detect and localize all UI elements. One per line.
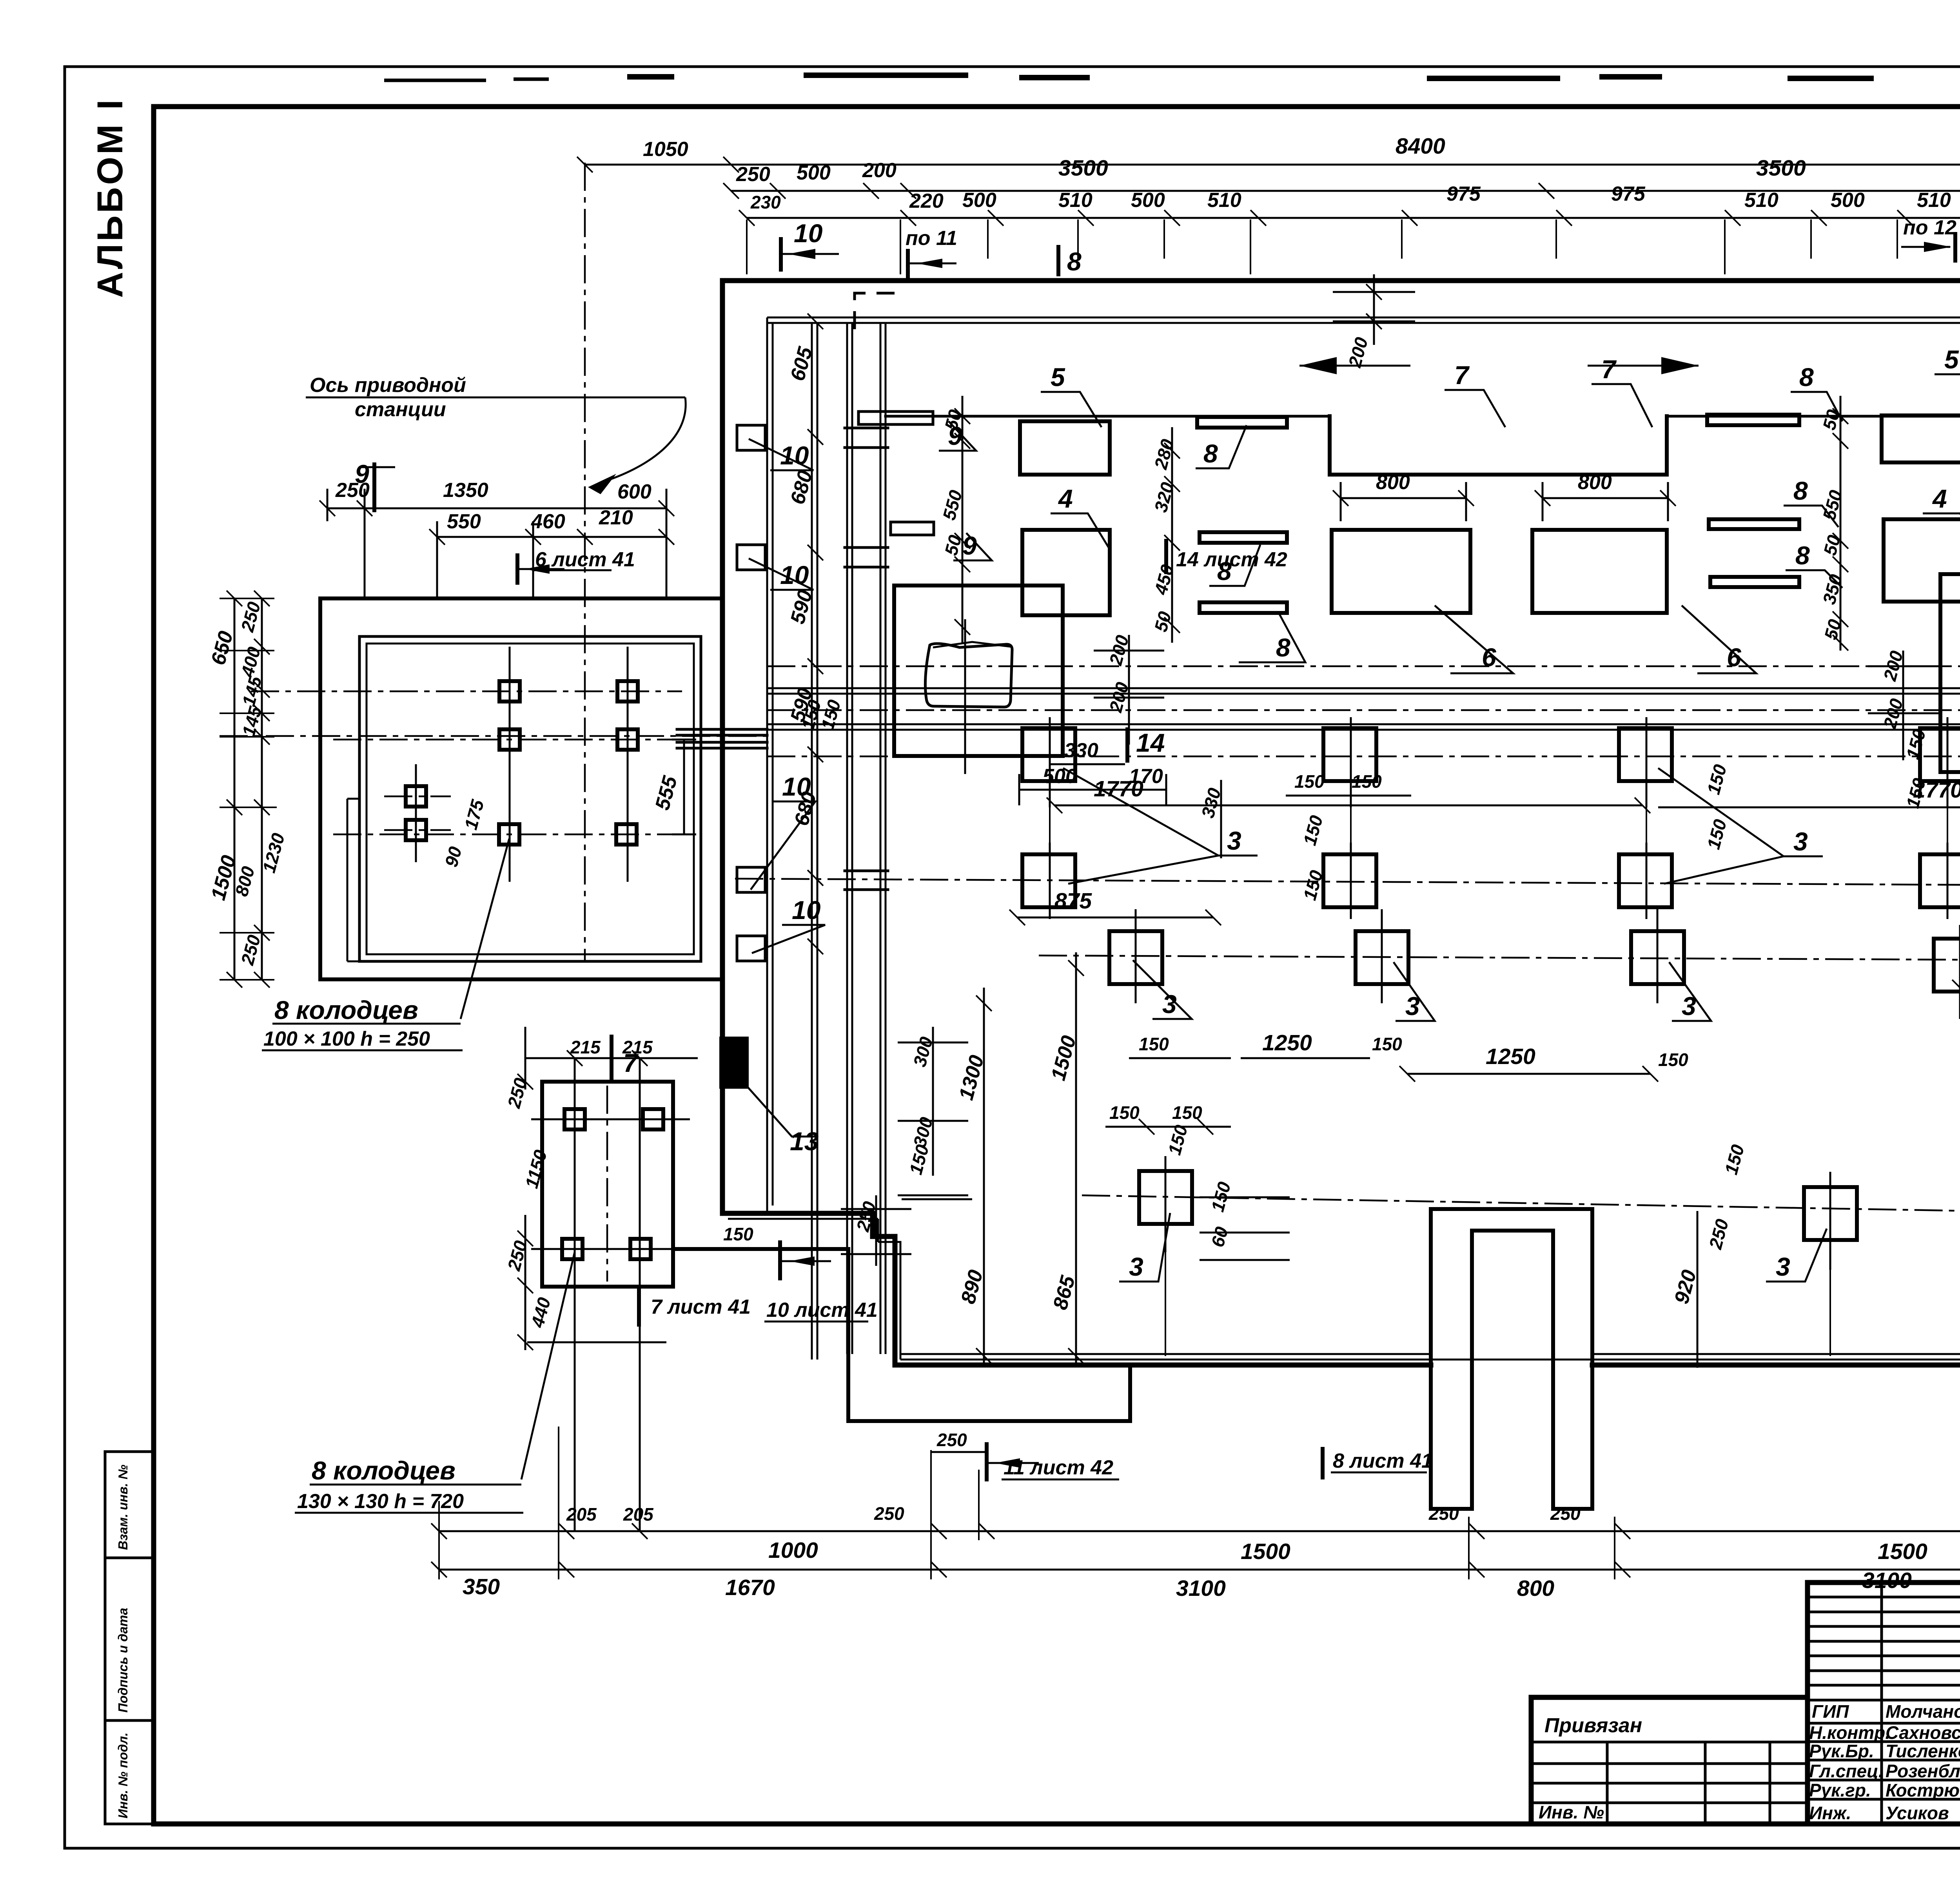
svg-text:Подпись и дата: Подпись и дата (116, 1608, 130, 1713)
dashed corners (855, 293, 898, 329)
svg-text:3: 3 (1227, 826, 1241, 855)
pads row axis 3 (1039, 955, 1960, 960)
svg-text:7: 7 (623, 1048, 639, 1077)
plan outer boundary (722, 281, 1960, 1365)
dim 875 left (1017, 917, 1213, 919)
title privyazan row (1531, 1742, 1808, 1824)
grid axis chain left (812, 323, 817, 1360)
svg-text:210: 210 (599, 506, 633, 529)
svg-text:14 лист 42: 14 лист 42 (1176, 548, 1287, 571)
pad 8 left 2 (1200, 532, 1287, 543)
drive station pit inner double (359, 636, 701, 961)
flag 14 лист 42 left (1164, 541, 1168, 572)
svg-text:4: 4 (1058, 484, 1073, 513)
svg-text:150: 150 (1372, 1034, 1402, 1054)
machine hall upper wall (886, 415, 1960, 418)
svg-text:600: 600 (617, 480, 652, 503)
left interior dims 605 680 590 590 680 (808, 314, 823, 954)
dims 1250 right part (1407, 1073, 1650, 1075)
pad 9 tabs (858, 412, 933, 424)
svg-text:5: 5 (1944, 345, 1959, 374)
pad 6 right (1532, 530, 1667, 613)
dim 1770 row2 right (1658, 807, 1960, 809)
svg-text:550: 550 (447, 510, 481, 533)
svg-text:9: 9 (948, 421, 962, 450)
svg-text:100 × 100 h = 250: 100 × 100 h = 250 (263, 1028, 430, 1050)
pads row axis 4 (1082, 1195, 1960, 1212)
svg-text:500: 500 (1831, 189, 1865, 212)
right interior chain 50-550-350 (1840, 396, 1842, 651)
pit left dim chains (234, 598, 262, 980)
svg-text:10: 10 (794, 219, 823, 248)
pit top dims (327, 508, 666, 537)
svg-text:150: 150 (1139, 1034, 1169, 1054)
svg-text:800: 800 (1517, 1576, 1554, 1601)
svg-text:250: 250 (874, 1503, 904, 1524)
svg-text:Н.контр.: Н.контр. (1809, 1722, 1890, 1743)
svg-text:350: 350 (463, 1574, 500, 1599)
svg-text:510: 510 (1207, 189, 1241, 212)
svg-text:8 лист 41: 8 лист 41 (1333, 1450, 1433, 1472)
pads 3 row1 (1022, 728, 1075, 781)
svg-text:7 лист 41: 7 лист 41 (651, 1296, 751, 1318)
svg-text:Тисленко: Тисленко (1886, 1741, 1960, 1761)
section flag 8 (1056, 247, 1060, 274)
svg-text:510: 510 (1744, 189, 1779, 212)
svg-text:8: 8 (1793, 476, 1808, 505)
svg-text:Инж.: Инж. (1809, 1803, 1851, 1823)
svg-text:8: 8 (1795, 541, 1810, 570)
svg-text:Розенблат: Розенблат (1886, 1761, 1960, 1781)
svg-text:7: 7 (1601, 355, 1617, 384)
svg-text:Ось приводной: Ось приводной (310, 374, 466, 397)
svg-text:3: 3 (1793, 827, 1808, 856)
pad 4 left (1022, 530, 1110, 615)
svg-text:Сахновская: Сахновская (1886, 1722, 1960, 1743)
pad 5 right (1882, 415, 1960, 462)
svg-text:510: 510 (1917, 189, 1951, 212)
bottom chains L1 (439, 1530, 1960, 1532)
svg-text:500: 500 (1043, 765, 1077, 788)
pad column centerlines (1050, 717, 1960, 1270)
conveyor arrows (1299, 365, 1699, 367)
title block outer (1531, 1583, 1960, 1824)
svg-text:7: 7 (1454, 361, 1470, 390)
left interior chain 50-550 (962, 396, 964, 643)
svg-text:3500: 3500 (1058, 156, 1108, 181)
misc vertical guides under plan (1050, 807, 1947, 1356)
flag 8 лист 41 bottom (1321, 1449, 1325, 1477)
svg-text:800: 800 (1578, 471, 1612, 494)
svg-text:500: 500 (1131, 189, 1165, 212)
svg-text:Гл.спец.: Гл.спец. (1809, 1761, 1884, 1781)
svg-text:Рук.Бр.: Рук.Бр. (1809, 1741, 1874, 1761)
svg-text:по 11: по 11 (906, 227, 957, 250)
flag 7 upper (610, 1037, 613, 1082)
svg-text:8400: 8400 (1396, 134, 1445, 159)
pad 4 right (1884, 519, 1960, 602)
pit wells (499, 681, 520, 702)
pad 8 left 3 (1200, 602, 1287, 613)
pads 3 row4 (1139, 1171, 1192, 1224)
svg-text:875: 875 (1054, 888, 1092, 914)
mid interior chain 280-320-450 (1171, 427, 1173, 643)
dim 1770 row1 (1054, 805, 1642, 807)
svg-text:1000: 1000 (768, 1538, 818, 1563)
flag 11 лист 42 (985, 1444, 989, 1479)
svg-text:150: 150 (1109, 1102, 1140, 1123)
svg-text:8: 8 (1067, 247, 1082, 276)
top dim line row3 (747, 217, 1960, 219)
bottom-left pit (542, 1082, 673, 1287)
svg-text:ГИП: ГИП (1812, 1701, 1849, 1722)
chain verticals (439, 1411, 1960, 1579)
svg-text:3: 3 (1162, 990, 1177, 1019)
bl wells (564, 1109, 585, 1129)
svg-text:1670: 1670 (725, 1575, 775, 1600)
svg-text:500: 500 (962, 189, 996, 212)
svg-text:3100: 3100 (1862, 1568, 1912, 1593)
flag 7 лист 41 bl (637, 1289, 641, 1325)
left transverse trench walls (847, 323, 886, 1354)
vertical dims 1300 1500 890 865 (984, 952, 1076, 1366)
svg-text:330: 330 (1064, 739, 1098, 762)
svg-text:215: 215 (570, 1037, 601, 1057)
drive station pit outer (320, 598, 723, 979)
svg-text:8 колодцев: 8 колодцев (312, 1456, 456, 1485)
svg-text:975: 975 (1446, 183, 1481, 205)
pad 8 right 2 (1709, 519, 1799, 529)
signature table grid (1882, 1583, 1960, 1824)
svg-text:10: 10 (792, 896, 821, 925)
trench wall crossings (845, 428, 1960, 890)
svg-text:205: 205 (623, 1504, 654, 1525)
svg-text:250: 250 (936, 1430, 967, 1450)
svg-text:Привязан: Привязан (1544, 1714, 1642, 1737)
conveyor axis dash-dot (220, 710, 1960, 782)
svg-text:975: 975 (1611, 183, 1646, 205)
svg-text:150: 150 (1658, 1050, 1688, 1070)
svg-text:станции: станции (355, 398, 446, 421)
conveyor trench walls (767, 688, 1960, 730)
svg-text:9: 9 (355, 459, 369, 488)
pad 8 left 1 (1197, 417, 1287, 428)
axis of drive station (584, 163, 586, 962)
bl pit dims (525, 1058, 698, 1342)
bottom chains L2 (439, 1569, 1960, 1571)
svg-text:1500: 1500 (1241, 1539, 1290, 1564)
svg-text:150: 150 (1352, 771, 1382, 792)
svg-text:220: 220 (909, 190, 944, 212)
svg-text:Взам. инв. №: Взам. инв. № (116, 1465, 130, 1550)
svg-text:3100: 3100 (1176, 1576, 1226, 1601)
svg-text:8 колодцев: 8 колодцев (274, 995, 418, 1024)
svg-text:3: 3 (1129, 1252, 1143, 1281)
section flag 6 лист 41 (515, 555, 519, 583)
svg-text:Рук.гр.: Рук.гр. (1809, 1780, 1871, 1800)
pit dim 555 (672, 740, 696, 834)
svg-text:11 лист 42: 11 лист 42 (1004, 1456, 1113, 1479)
plan sw extension (673, 1249, 1130, 1421)
svg-text:10 лист 41: 10 лист 41 (766, 1299, 878, 1322)
svg-text:8: 8 (1203, 439, 1218, 468)
machine row axis 1 (767, 665, 1960, 667)
svg-text:1250: 1250 (1486, 1044, 1535, 1069)
top dim line row2 (731, 190, 1960, 192)
left wall tabs 10 (737, 425, 765, 450)
svg-text:200: 200 (862, 159, 897, 182)
svg-text:250: 250 (1550, 1503, 1581, 1524)
dim 800 over pad6 right (1543, 482, 1668, 521)
svg-text:205: 205 (566, 1504, 597, 1525)
svg-text:1050: 1050 (643, 138, 688, 161)
pads 3 row3 (1109, 931, 1162, 984)
pads 3 row2 (1022, 854, 1075, 907)
svg-text:3: 3 (1776, 1252, 1790, 1281)
left attribute strip (105, 1452, 154, 1824)
svg-text:1350: 1350 (443, 479, 488, 502)
svg-text:500: 500 (797, 161, 831, 184)
pads row axis 2 (735, 879, 1960, 886)
svg-text:по 12: по 12 (1903, 216, 1956, 239)
svg-text:800: 800 (1376, 471, 1410, 494)
svg-text:6 лист 41: 6 лист 41 (535, 548, 635, 571)
svg-text:Инв. № подл.: Инв. № подл. (116, 1733, 130, 1818)
svg-text:1250: 1250 (1262, 1030, 1312, 1055)
wall 13 element left (719, 1037, 749, 1089)
pad 6 left (1332, 530, 1470, 613)
svg-text:250: 250 (1428, 1503, 1459, 1524)
svg-text:Молчанов: Молчанов (1886, 1701, 1960, 1722)
svg-text:460: 460 (531, 510, 565, 533)
room 14 left inner quad (925, 644, 1012, 707)
svg-text:14: 14 (1136, 728, 1165, 757)
svg-text:8: 8 (1276, 633, 1290, 662)
scan artifacts top (627, 75, 1960, 78)
svg-text:Инв. №: Инв. № (1539, 1802, 1604, 1822)
svg-text:5: 5 (1051, 363, 1065, 392)
room 14 right (1940, 574, 1960, 772)
column extension ticks (747, 219, 1960, 274)
svg-text:Кострюкин: Кострюкин (1886, 1780, 1960, 1800)
svg-text:1500: 1500 (1878, 1539, 1927, 1564)
svg-text:8: 8 (1799, 363, 1814, 392)
svg-text:13: 13 (790, 1127, 818, 1156)
svg-text:4: 4 (1932, 484, 1947, 513)
room 14 left (894, 586, 1063, 756)
svg-text:230: 230 (750, 192, 781, 212)
svg-text:150: 150 (1294, 771, 1325, 792)
dim 800 over pad6 left (1341, 482, 1466, 521)
pad 8 right 1 (1707, 415, 1799, 425)
svg-text:170: 170 (1129, 765, 1163, 788)
dim 920 (1697, 1211, 1699, 1368)
dim 200 top left interior (1366, 284, 1382, 329)
svg-text:150: 150 (723, 1224, 753, 1244)
flag 10 лист 41 (778, 1242, 782, 1278)
plan inner wall offsets (767, 317, 1960, 323)
top dim line 8400 (585, 164, 1960, 166)
svg-text:250: 250 (736, 163, 770, 186)
pad 5 left (1020, 421, 1110, 475)
svg-text:10: 10 (782, 772, 811, 801)
svg-text:510: 510 (1058, 189, 1093, 212)
notch outline (1431, 1209, 1592, 1509)
svg-text:3500: 3500 (1756, 156, 1806, 181)
svg-text:Усиков: Усиков (1886, 1803, 1949, 1823)
svg-text:АЛЬБОМ I: АЛЬБОМ I (90, 97, 130, 298)
pad 8 right 3 (1710, 577, 1799, 587)
left trench crossing to pit (677, 729, 767, 748)
pit well centerlines (251, 691, 682, 834)
